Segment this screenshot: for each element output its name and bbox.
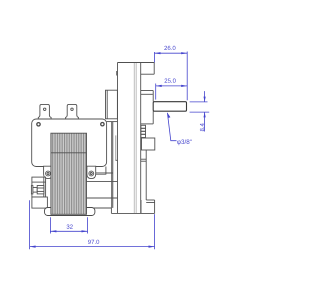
arrowheads dim 97.0: [30, 246, 36, 248]
dim 97.0: [29, 200, 31, 249]
stator frame plate: [32, 119, 107, 167]
left connector assembly: [32, 177, 46, 197]
main inner vertical: [140, 63, 142, 214]
gearbox front plate: [118, 62, 155, 64]
leader for shaft dia: [167, 113, 176, 141]
top-right block: [153, 63, 155, 75]
plate inner grey band: [133, 63, 135, 213]
dim text 97.0: [88, 240, 99, 244]
output shaft: [153, 102, 186, 112]
arrowheads dim 26.0: [155, 52, 161, 54]
mid block: [142, 138, 155, 150]
dim 26.0: [154, 52, 156, 63]
dim 32: [49, 217, 51, 233]
terminal tab right: [66, 104, 79, 119]
shaft column: [145, 150, 147, 200]
arrowheads dim 8.4: [204, 97, 206, 102]
dim text 26.0: [164, 46, 175, 50]
dim text 32: [67, 225, 73, 229]
bearing boss: [141, 90, 154, 92]
lamination / coil stack: [51, 133, 87, 214]
dim text shaft dia: [177, 139, 192, 145]
dim text 8.4: [200, 123, 204, 131]
bottom block: [146, 199, 154, 201]
arrowheads dim 32: [50, 230, 56, 232]
arrowheads dim 25.0: [156, 85, 162, 87]
terminal tab left: [38, 104, 51, 119]
motor bottom bracket line: [32, 207, 112, 209]
bobbin ear left: [44, 166, 53, 178]
coil bottom cap: [45, 208, 95, 216]
terminal screw: [31, 186, 33, 194]
gearcase lower-right step lines: [96, 172, 113, 174]
frame screw top-right: [101, 123, 104, 126]
dim text 25.0: [165, 79, 176, 83]
frame screw top-left: [37, 123, 40, 126]
bobbin ear right: [87, 166, 96, 178]
gearbox wall pair between motor and plate: [111, 122, 113, 208]
arrowhead shaft leader: [167, 113, 170, 118]
gearbox mounting hub behind motor top: [106, 90, 118, 119]
dim 8.4: [190, 101, 208, 103]
knurl / thread detail: [141, 125, 146, 137]
dim 25.0: [155, 84, 157, 100]
